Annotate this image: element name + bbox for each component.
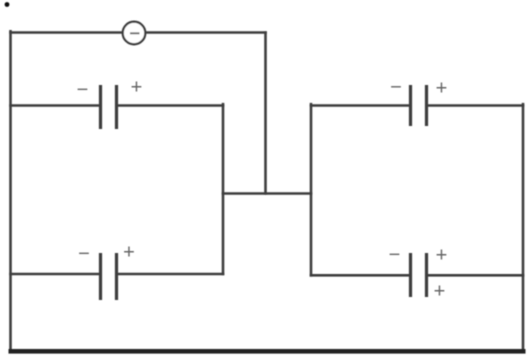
bullet xyxy=(5,2,10,7)
wire right loop left edge xyxy=(310,104,313,275)
wire bottom (thick) xyxy=(9,349,526,354)
svg-text:+: + xyxy=(131,77,143,99)
svg-text:−: − xyxy=(78,243,90,265)
wire left loop top-right segment xyxy=(118,104,223,107)
svg-text:−: − xyxy=(390,77,402,99)
wire outer right edge xyxy=(522,104,525,351)
capacitor C2 (bottom-left) plates xyxy=(101,253,117,300)
capacitor C1 labels xyxy=(77,77,143,102)
svg-text:+: + xyxy=(434,281,446,303)
wire top xyxy=(11,31,266,34)
capacitor C4 (bottom-right) plates xyxy=(411,253,427,297)
svg-text:+: + xyxy=(123,242,135,264)
wire right loop top-left segment xyxy=(311,104,409,107)
capacitor C3 labels xyxy=(390,77,447,100)
capacitor C2 labels xyxy=(78,242,135,266)
wire right loop top-right segment xyxy=(428,104,523,107)
wire left loop bottom-right segment xyxy=(118,273,223,276)
svg-text:+: + xyxy=(436,245,448,267)
wire right loop bottom-right segment xyxy=(428,274,523,277)
wire left loop top-left segment xyxy=(11,104,100,107)
wire middle vertical xyxy=(264,33,267,194)
wire right loop bottom-left segment xyxy=(311,274,409,277)
svg-text:+: + xyxy=(436,78,448,100)
wire left loop right edge xyxy=(222,104,225,274)
wire left loop bottom-left segment xyxy=(11,273,100,276)
wire outer left edge xyxy=(9,31,12,352)
svg-text:−: − xyxy=(77,79,89,101)
capacitor C1 (top-left) plates xyxy=(101,85,117,129)
source V1 (circle with minus) xyxy=(123,22,146,45)
capacitor C4 labels xyxy=(389,244,448,303)
svg-text:−: − xyxy=(389,244,401,266)
capacitor C3 (top-right) plates xyxy=(411,85,427,126)
wire middle horizontal xyxy=(223,192,311,195)
